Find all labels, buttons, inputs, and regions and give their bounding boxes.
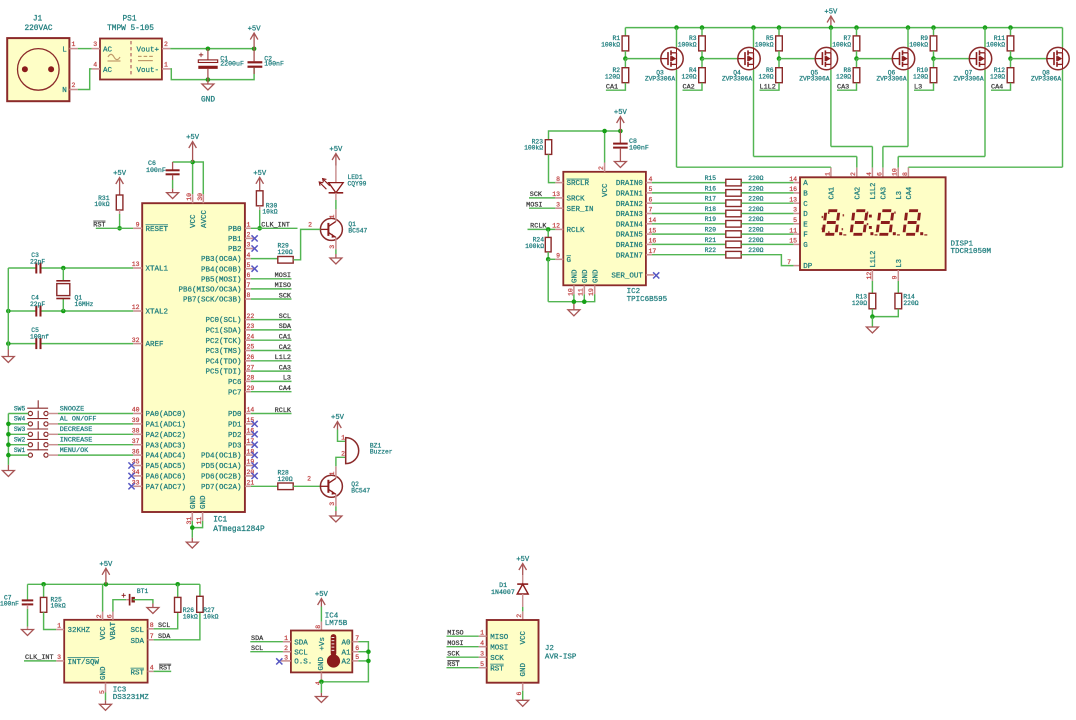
svg-text:SW2: SW2 bbox=[14, 437, 26, 444]
svg-text:10kΩ: 10kΩ bbox=[183, 613, 198, 620]
svg-text:A2: A2 bbox=[341, 659, 350, 667]
svg-text:RCLK: RCLK bbox=[275, 407, 292, 415]
svg-text:CLK_INT: CLK_INT bbox=[261, 222, 290, 230]
svg-text:2: 2 bbox=[164, 41, 168, 48]
svg-text:1: 1 bbox=[329, 215, 336, 219]
svg-text:22pF: 22pF bbox=[30, 258, 45, 265]
svg-text:4: 4 bbox=[480, 640, 484, 647]
svg-text:VCC: VCC bbox=[602, 183, 610, 197]
svg-text:CA1: CA1 bbox=[606, 84, 618, 92]
svg-text:N: N bbox=[62, 87, 67, 95]
svg-text:16: 16 bbox=[789, 186, 797, 193]
svg-text:PC0(SCL): PC0(SCL) bbox=[205, 317, 241, 325]
svg-text:220Ω: 220Ω bbox=[748, 247, 763, 254]
svg-text:MISO: MISO bbox=[490, 634, 509, 642]
svg-text:DP: DP bbox=[803, 263, 813, 271]
svg-text:4: 4 bbox=[649, 176, 653, 183]
svg-text:6: 6 bbox=[355, 645, 359, 652]
svg-text:2: 2 bbox=[96, 614, 103, 618]
svg-text:TPIC6B595: TPIC6B595 bbox=[627, 296, 668, 304]
svg-text:3: 3 bbox=[57, 654, 61, 661]
svg-text:INCREASE: INCREASE bbox=[60, 437, 93, 445]
svg-text:MOSI: MOSI bbox=[447, 640, 463, 648]
svg-text:PC1(SDA): PC1(SDA) bbox=[205, 328, 241, 336]
svg-text:38: 38 bbox=[132, 428, 140, 435]
svg-text:13: 13 bbox=[552, 191, 560, 198]
svg-text:13: 13 bbox=[132, 261, 140, 268]
svg-text:+5V: +5V bbox=[329, 146, 343, 154]
svg-text:6: 6 bbox=[247, 272, 251, 279]
svg-text:12: 12 bbox=[552, 223, 560, 230]
svg-text:5: 5 bbox=[247, 262, 251, 269]
svg-text:7: 7 bbox=[787, 259, 791, 266]
svg-text:PA0(ADC0): PA0(ADC0) bbox=[146, 411, 187, 419]
svg-text:2: 2 bbox=[284, 645, 288, 652]
svg-text:R15: R15 bbox=[705, 175, 717, 182]
svg-text:1: 1 bbox=[57, 623, 61, 630]
svg-text:RST: RST bbox=[93, 222, 105, 230]
svg-text:PB6(MISO/OC3A): PB6(MISO/OC3A) bbox=[178, 287, 241, 295]
svg-text:MOSI: MOSI bbox=[275, 272, 291, 280]
svg-text:5: 5 bbox=[649, 186, 653, 193]
svg-text:+5V: +5V bbox=[186, 134, 200, 142]
svg-text:37: 37 bbox=[132, 438, 140, 445]
svg-text:Vout+: Vout+ bbox=[136, 47, 159, 55]
svg-text:2: 2 bbox=[72, 82, 76, 89]
svg-text:MOSI: MOSI bbox=[490, 644, 508, 652]
svg-text:PB1: PB1 bbox=[228, 236, 242, 244]
svg-text:220Ω: 220Ω bbox=[748, 206, 763, 213]
svg-text:+: + bbox=[121, 592, 126, 601]
svg-text:SW4: SW4 bbox=[14, 416, 26, 423]
svg-text:CA2: CA2 bbox=[854, 187, 862, 200]
svg-text:O.S.: O.S. bbox=[294, 659, 312, 667]
svg-text:36: 36 bbox=[132, 448, 140, 455]
svg-text:120Ω: 120Ω bbox=[758, 74, 773, 81]
svg-text:SDA: SDA bbox=[251, 635, 264, 643]
svg-text:1N4007: 1N4007 bbox=[491, 589, 515, 596]
svg-text:L1L2: L1L2 bbox=[870, 183, 878, 200]
svg-text:DRAIN1: DRAIN1 bbox=[616, 191, 644, 199]
svg-text:C6: C6 bbox=[148, 160, 156, 167]
svg-text:MENU/OK: MENU/OK bbox=[60, 447, 89, 455]
svg-text:PB2: PB2 bbox=[228, 246, 242, 254]
svg-text:PD0: PD0 bbox=[228, 411, 242, 419]
svg-text:2: 2 bbox=[516, 614, 523, 618]
svg-text:IC1: IC1 bbox=[213, 517, 227, 525]
svg-text:ZVP3306A: ZVP3306A bbox=[799, 76, 829, 83]
svg-text:1: 1 bbox=[824, 172, 831, 176]
svg-text:MISO: MISO bbox=[447, 630, 463, 638]
svg-text:6: 6 bbox=[876, 172, 883, 176]
svg-text:100nF: 100nF bbox=[146, 167, 166, 174]
svg-text:2: 2 bbox=[341, 451, 345, 458]
svg-text:L3: L3 bbox=[914, 84, 922, 92]
svg-text:1: 1 bbox=[480, 629, 484, 636]
svg-text:7: 7 bbox=[247, 282, 251, 289]
svg-text:L1L2: L1L2 bbox=[870, 251, 878, 268]
svg-text:120Ω: 120Ω bbox=[852, 300, 867, 307]
svg-text:120Ω: 120Ω bbox=[278, 476, 293, 483]
svg-text:SW1: SW1 bbox=[14, 447, 26, 454]
svg-text:SRCLR: SRCLR bbox=[567, 180, 590, 188]
svg-text:PA3(ADC3): PA3(ADC3) bbox=[146, 442, 187, 450]
svg-text:GND: GND bbox=[592, 269, 600, 283]
svg-text:ATmega1284P: ATmega1284P bbox=[213, 526, 265, 534]
svg-text:B: B bbox=[803, 191, 808, 199]
svg-text:SER_OUT: SER_OUT bbox=[611, 273, 643, 281]
svg-text:R16: R16 bbox=[705, 185, 717, 192]
svg-text:VCC: VCC bbox=[100, 626, 108, 640]
svg-text:220Ω: 220Ω bbox=[748, 216, 763, 223]
svg-text:SW5: SW5 bbox=[14, 405, 26, 412]
svg-text:SER_IN: SER_IN bbox=[567, 206, 594, 214]
svg-text:PD4(OC1B): PD4(OC1B) bbox=[201, 453, 242, 461]
svg-text:PB4(OC0B): PB4(OC0B) bbox=[201, 266, 242, 274]
svg-text:MISO: MISO bbox=[275, 282, 291, 290]
svg-text:+5V: +5V bbox=[253, 170, 267, 178]
svg-text:4: 4 bbox=[247, 252, 251, 259]
svg-text:9: 9 bbox=[556, 253, 560, 260]
svg-text:L1L2: L1L2 bbox=[275, 354, 291, 362]
svg-text:39: 39 bbox=[132, 417, 140, 424]
svg-text:4: 4 bbox=[866, 172, 873, 176]
svg-text:TMPW 5-105: TMPW 5-105 bbox=[107, 25, 154, 33]
svg-text:32: 32 bbox=[132, 337, 140, 344]
svg-text:AVR-ISP: AVR-ISP bbox=[545, 653, 577, 661]
svg-text:14: 14 bbox=[649, 217, 657, 224]
svg-text:AC: AC bbox=[103, 47, 113, 55]
svg-text:PD1: PD1 bbox=[228, 422, 242, 430]
svg-text:14: 14 bbox=[247, 407, 255, 414]
svg-text:DRAIN2: DRAIN2 bbox=[616, 201, 643, 209]
svg-text:120Ω: 120Ω bbox=[278, 249, 293, 256]
svg-text:L3: L3 bbox=[896, 191, 904, 199]
svg-text:RST: RST bbox=[447, 661, 459, 669]
svg-text:120Ω: 120Ω bbox=[605, 74, 620, 81]
svg-text:9: 9 bbox=[136, 222, 140, 229]
svg-text:220Ω: 220Ω bbox=[748, 185, 763, 192]
svg-text:CA2: CA2 bbox=[683, 84, 695, 92]
svg-text:RCLK: RCLK bbox=[567, 227, 586, 235]
svg-text:SNOOZE: SNOOZE bbox=[60, 405, 84, 413]
svg-text:1: 1 bbox=[329, 472, 336, 476]
svg-text:BC547: BC547 bbox=[348, 227, 367, 234]
svg-text:PD6(OC2B): PD6(OC2B) bbox=[201, 474, 242, 482]
svg-text:GND: GND bbox=[582, 269, 590, 283]
svg-text:ZVP3306A: ZVP3306A bbox=[876, 76, 906, 83]
svg-text:100kΩ: 100kΩ bbox=[525, 243, 544, 250]
svg-text:1: 1 bbox=[164, 62, 168, 69]
svg-text:+Vs: +Vs bbox=[319, 637, 327, 651]
svg-text:TDCR1050M: TDCR1050M bbox=[951, 248, 992, 256]
svg-text:3: 3 bbox=[329, 245, 336, 249]
svg-text:220Ω: 220Ω bbox=[748, 227, 763, 234]
svg-text:1: 1 bbox=[247, 222, 251, 229]
svg-text:220Ω: 220Ω bbox=[903, 300, 918, 307]
svg-text:+5V: +5V bbox=[99, 561, 113, 569]
svg-text:5: 5 bbox=[480, 661, 484, 668]
svg-text:DRAIN3: DRAIN3 bbox=[616, 211, 644, 219]
svg-text:25: 25 bbox=[247, 344, 255, 351]
svg-text:PB7(SCK/OC3B): PB7(SCK/OC3B) bbox=[183, 297, 242, 305]
svg-text:100kΩ: 100kΩ bbox=[986, 41, 1005, 48]
svg-text:32KHZ: 32KHZ bbox=[68, 627, 91, 635]
svg-text:+: + bbox=[198, 51, 203, 61]
svg-text:PA7(ADC7): PA7(ADC7) bbox=[146, 484, 187, 492]
svg-text:A1: A1 bbox=[341, 649, 351, 657]
svg-text:6: 6 bbox=[649, 196, 653, 203]
svg-text:GND: GND bbox=[520, 662, 528, 676]
svg-text:L1L2: L1L2 bbox=[760, 84, 776, 92]
svg-text:+5V: +5V bbox=[315, 591, 329, 599]
svg-text:15: 15 bbox=[649, 227, 657, 234]
svg-text:BT1: BT1 bbox=[137, 588, 149, 595]
svg-text:3: 3 bbox=[480, 650, 484, 657]
svg-text:100kΩ: 100kΩ bbox=[524, 145, 543, 152]
svg-text:RESET: RESET bbox=[146, 226, 169, 234]
svg-text:PB5(MOSI): PB5(MOSI) bbox=[201, 276, 242, 284]
svg-text:+5V: +5V bbox=[614, 109, 628, 117]
svg-text:SCL: SCL bbox=[251, 645, 263, 653]
svg-text:5: 5 bbox=[355, 654, 359, 661]
svg-text:27: 27 bbox=[247, 364, 255, 371]
svg-text:8: 8 bbox=[556, 176, 560, 183]
svg-text:BC547: BC547 bbox=[351, 487, 370, 494]
svg-text:J2: J2 bbox=[545, 645, 554, 653]
svg-text:DRAIN0: DRAIN0 bbox=[616, 180, 644, 188]
svg-text:RST: RST bbox=[490, 665, 504, 673]
svg-text:DS3231MZ: DS3231MZ bbox=[113, 694, 150, 702]
svg-text:10kΩ: 10kΩ bbox=[94, 201, 109, 208]
svg-text:1: 1 bbox=[341, 435, 345, 442]
svg-text:100kΩ: 100kΩ bbox=[909, 41, 928, 48]
svg-text:26: 26 bbox=[247, 354, 255, 361]
svg-text:DRAIN7: DRAIN7 bbox=[616, 252, 643, 260]
svg-text:10kΩ: 10kΩ bbox=[51, 603, 66, 610]
svg-text:LM75B: LM75B bbox=[325, 620, 348, 628]
svg-text:100nF: 100nF bbox=[264, 60, 284, 67]
svg-text:R21: R21 bbox=[705, 237, 717, 244]
svg-text:120Ω: 120Ω bbox=[990, 74, 1005, 81]
svg-text:220Ω: 220Ω bbox=[748, 237, 763, 244]
svg-text:100nF: 100nF bbox=[629, 145, 649, 152]
svg-text:L3: L3 bbox=[896, 259, 904, 267]
svg-text:PA5(ADC5): PA5(ADC5) bbox=[146, 463, 187, 471]
svg-text:17: 17 bbox=[649, 248, 657, 255]
svg-text:DRAIN4: DRAIN4 bbox=[616, 221, 644, 229]
svg-text:F: F bbox=[803, 232, 808, 240]
svg-text:R17: R17 bbox=[705, 196, 717, 203]
svg-text:8: 8 bbox=[247, 292, 251, 299]
svg-text:AC: AC bbox=[103, 67, 113, 75]
svg-text:5: 5 bbox=[793, 217, 797, 224]
svg-text:23: 23 bbox=[247, 323, 255, 330]
svg-text:PC3(TMS): PC3(TMS) bbox=[205, 348, 241, 356]
svg-text:2: 2 bbox=[247, 232, 251, 239]
svg-text:+5V: +5V bbox=[516, 556, 530, 564]
svg-text:PC4(TDO): PC4(TDO) bbox=[205, 358, 241, 366]
svg-text:11: 11 bbox=[789, 227, 797, 234]
svg-text:INT/SQW: INT/SQW bbox=[68, 659, 100, 667]
svg-text:R20: R20 bbox=[705, 227, 717, 234]
svg-text:SCK: SCK bbox=[279, 292, 292, 300]
svg-text:J1: J1 bbox=[33, 16, 43, 24]
svg-text:CA3: CA3 bbox=[279, 364, 291, 372]
svg-text:C: C bbox=[803, 201, 808, 209]
svg-text:IC2: IC2 bbox=[627, 288, 641, 296]
svg-text:10: 10 bbox=[892, 168, 899, 176]
svg-text:8: 8 bbox=[902, 172, 909, 176]
svg-text:7: 7 bbox=[150, 633, 154, 640]
svg-text:4: 4 bbox=[93, 62, 97, 69]
svg-text:E: E bbox=[803, 221, 808, 229]
svg-text:PB0: PB0 bbox=[228, 226, 242, 234]
svg-text:VCC: VCC bbox=[520, 630, 528, 644]
svg-text:R22: R22 bbox=[705, 247, 717, 254]
svg-text:SDA: SDA bbox=[279, 323, 292, 331]
svg-text:+5V: +5V bbox=[248, 26, 262, 34]
svg-text:ZVP3306A: ZVP3306A bbox=[722, 76, 752, 83]
svg-text:2: 2 bbox=[307, 476, 311, 483]
svg-text:SCL: SCL bbox=[294, 649, 308, 657]
svg-text:PD3: PD3 bbox=[228, 442, 242, 450]
svg-text:220Ω: 220Ω bbox=[748, 196, 763, 203]
svg-text:120Ω: 120Ω bbox=[681, 74, 696, 81]
svg-text:100kΩ: 100kΩ bbox=[832, 41, 851, 48]
svg-text:PB3(OC0A): PB3(OC0A) bbox=[201, 256, 242, 264]
svg-text:100kΩ: 100kΩ bbox=[601, 41, 620, 48]
svg-text:L3: L3 bbox=[283, 375, 291, 383]
svg-text:2: 2 bbox=[850, 172, 857, 176]
svg-text:R19: R19 bbox=[705, 216, 717, 223]
svg-text:22pF: 22pF bbox=[30, 301, 45, 308]
svg-text:PC5(TDI): PC5(TDI) bbox=[205, 369, 241, 377]
svg-text:SW3: SW3 bbox=[14, 426, 26, 433]
svg-text:CA3: CA3 bbox=[837, 84, 849, 92]
svg-text:PA2(ADC2): PA2(ADC2) bbox=[146, 432, 187, 440]
svg-text:+5V: +5V bbox=[824, 9, 838, 17]
svg-text:CA3: CA3 bbox=[881, 187, 889, 200]
svg-text:100kΩ: 100kΩ bbox=[678, 41, 697, 48]
svg-text:G: G bbox=[567, 257, 572, 265]
svg-text:220Ω: 220Ω bbox=[748, 175, 763, 182]
svg-text:DRAIN6: DRAIN6 bbox=[616, 242, 644, 250]
svg-text:120Ω: 120Ω bbox=[913, 74, 928, 81]
svg-text:VCC: VCC bbox=[190, 214, 198, 228]
svg-text:SCL: SCL bbox=[130, 627, 144, 635]
svg-text:XTAL2: XTAL2 bbox=[146, 309, 169, 317]
svg-text:R18: R18 bbox=[705, 206, 717, 213]
svg-text:ZVP3306A: ZVP3306A bbox=[1031, 76, 1061, 83]
svg-text:CLK_INT: CLK_INT bbox=[25, 654, 54, 662]
svg-text:1: 1 bbox=[72, 41, 76, 48]
svg-text:4: 4 bbox=[150, 665, 154, 672]
svg-text:3: 3 bbox=[93, 41, 97, 48]
svg-text:28: 28 bbox=[247, 375, 255, 382]
svg-text:220VAC: 220VAC bbox=[24, 25, 52, 33]
svg-text:PD7(OC2A): PD7(OC2A) bbox=[201, 484, 242, 492]
svg-text:PD5(OC1A): PD5(OC1A) bbox=[201, 463, 242, 471]
svg-text:SRCK: SRCK bbox=[567, 196, 586, 204]
svg-text:SDA: SDA bbox=[294, 639, 308, 647]
svg-text:CA4: CA4 bbox=[906, 187, 914, 200]
svg-text:1: 1 bbox=[284, 635, 288, 642]
svg-text:15: 15 bbox=[789, 238, 797, 245]
svg-text:CA1: CA1 bbox=[279, 334, 291, 342]
svg-text:29: 29 bbox=[247, 385, 255, 392]
svg-text:2: 2 bbox=[598, 166, 605, 170]
svg-text:D: D bbox=[803, 211, 808, 219]
svg-text:SDA: SDA bbox=[130, 638, 144, 646]
svg-text:PS1: PS1 bbox=[122, 16, 136, 24]
svg-text:CA1: CA1 bbox=[829, 187, 837, 200]
svg-text:+5V: +5V bbox=[113, 170, 127, 178]
svg-text:GND: GND bbox=[190, 495, 198, 509]
svg-text:PA1(ADC1): PA1(ADC1) bbox=[146, 422, 187, 430]
svg-text:L: L bbox=[62, 46, 67, 54]
svg-text:VBAT: VBAT bbox=[110, 621, 118, 640]
svg-text:2200uF: 2200uF bbox=[220, 60, 244, 67]
svg-text:7: 7 bbox=[355, 635, 359, 642]
svg-text:ZVP3306A: ZVP3306A bbox=[645, 76, 675, 83]
svg-text:PC6: PC6 bbox=[228, 379, 242, 387]
svg-text:GND: GND bbox=[200, 495, 208, 509]
svg-text:9: 9 bbox=[892, 276, 899, 280]
svg-text:AREF: AREF bbox=[146, 341, 164, 349]
svg-text:12: 12 bbox=[866, 272, 873, 280]
svg-text:DRAIN5: DRAIN5 bbox=[616, 232, 644, 240]
svg-text:10kΩ: 10kΩ bbox=[203, 613, 218, 620]
svg-text:A0: A0 bbox=[341, 639, 351, 647]
svg-text:SCK: SCK bbox=[447, 651, 460, 659]
svg-text:AVCC: AVCC bbox=[201, 209, 209, 228]
svg-text:RST: RST bbox=[130, 669, 144, 677]
svg-text:3: 3 bbox=[329, 502, 336, 506]
svg-text:Buzzer: Buzzer bbox=[370, 449, 393, 456]
svg-text:14: 14 bbox=[789, 176, 797, 183]
svg-text:CA4: CA4 bbox=[279, 385, 291, 393]
svg-text:13: 13 bbox=[789, 196, 797, 203]
svg-text:22: 22 bbox=[247, 313, 255, 320]
svg-text:16: 16 bbox=[649, 238, 657, 245]
svg-text:100nF: 100nF bbox=[0, 601, 19, 608]
svg-text:D1: D1 bbox=[499, 582, 507, 589]
svg-text:PD2: PD2 bbox=[228, 432, 242, 440]
svg-text:16MHz: 16MHz bbox=[75, 301, 94, 308]
svg-text:PA6(ADC6): PA6(ADC6) bbox=[146, 474, 187, 482]
svg-text:AL ON/OFF: AL ON/OFF bbox=[60, 416, 97, 424]
svg-text:21: 21 bbox=[247, 480, 255, 487]
svg-text:CA2: CA2 bbox=[279, 344, 291, 352]
svg-text:7: 7 bbox=[649, 207, 653, 214]
svg-text:Vout-: Vout- bbox=[136, 67, 159, 75]
svg-text:3: 3 bbox=[556, 201, 560, 208]
svg-text:PA4(ADC4): PA4(ADC4) bbox=[146, 453, 187, 461]
svg-text:CQY99: CQY99 bbox=[348, 180, 367, 187]
svg-text:GND: GND bbox=[572, 269, 580, 283]
svg-text:10kΩ: 10kΩ bbox=[262, 209, 277, 216]
svg-text:G: G bbox=[803, 242, 808, 250]
svg-text:GND: GND bbox=[318, 656, 326, 670]
svg-text:ZVP3306A: ZVP3306A bbox=[953, 76, 983, 83]
svg-text:24: 24 bbox=[247, 333, 255, 340]
svg-text:SCK: SCK bbox=[490, 655, 504, 663]
svg-text:GND: GND bbox=[100, 666, 108, 680]
svg-text:PC7: PC7 bbox=[228, 389, 242, 397]
svg-text:6: 6 bbox=[106, 614, 113, 618]
svg-text:120Ω: 120Ω bbox=[836, 74, 851, 81]
